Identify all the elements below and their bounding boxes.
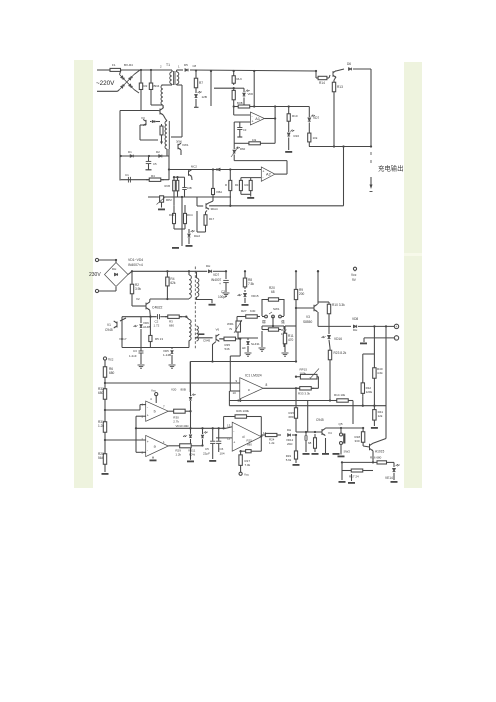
svg-text:C945: C945 xyxy=(203,339,211,343)
svg-text:R16: R16 xyxy=(294,134,300,138)
svg-text:R: R xyxy=(225,183,227,187)
svg-text:C6: C6 xyxy=(220,447,224,451)
svg-text:DH: DH xyxy=(112,267,116,271)
svg-text:9V: 9V xyxy=(352,278,357,282)
svg-text:R14: R14 xyxy=(319,81,325,85)
svg-text:WR1: WR1 xyxy=(227,322,234,326)
svg-text:10: 10 xyxy=(233,391,237,395)
svg-text:R33 3.3k: R33 3.3k xyxy=(298,392,311,396)
svg-text:230V: 230V xyxy=(89,272,101,278)
svg-text:A1015: A1015 xyxy=(375,450,384,454)
svg-text:1.2k: 1.2k xyxy=(98,424,104,428)
svg-text:SW1: SW1 xyxy=(273,307,280,311)
svg-text:62k: 62k xyxy=(170,281,176,285)
svg-text:564: 564 xyxy=(98,456,104,460)
svg-text:680: 680 xyxy=(169,324,174,328)
svg-text:RC4: RC4 xyxy=(187,213,193,217)
svg-text:DH: DH xyxy=(287,428,291,432)
svg-text:VD7: VD7 xyxy=(313,116,319,120)
svg-text:VD7: VD7 xyxy=(213,273,219,277)
svg-text:10k: 10k xyxy=(313,136,318,140)
svg-text:12B: 12B xyxy=(202,95,207,99)
svg-text:R23 8.2k: R23 8.2k xyxy=(334,351,347,355)
svg-text:BD4: BD4 xyxy=(154,84,160,88)
svg-text:R14 10k: R14 10k xyxy=(334,393,346,397)
svg-text:546: 546 xyxy=(225,347,230,351)
svg-text:22μF: 22μF xyxy=(203,452,210,456)
svg-text:1-14B: 1-14B xyxy=(163,353,171,357)
svg-text:KBA: KBA xyxy=(217,190,223,194)
svg-text:1.2nF: 1.2nF xyxy=(129,354,137,358)
svg-text:120k: 120k xyxy=(366,390,373,394)
svg-text:D1: D1 xyxy=(128,150,132,154)
svg-text:VD16: VD16 xyxy=(334,337,342,341)
svg-text:+: + xyxy=(252,119,254,123)
svg-text:V3: V3 xyxy=(141,116,145,120)
svg-text:VD17: VD17 xyxy=(119,337,127,341)
svg-text:R2: R2 xyxy=(144,84,148,88)
svg-text:DH: DH xyxy=(206,264,210,268)
svg-text:680: 680 xyxy=(98,391,104,395)
svg-text:680: 680 xyxy=(289,415,294,419)
svg-text:b: b xyxy=(154,410,156,414)
svg-text:680: 680 xyxy=(247,443,252,447)
svg-text:Vcc: Vcc xyxy=(244,473,250,477)
svg-text:330: 330 xyxy=(355,439,360,443)
svg-text:2: 2 xyxy=(160,65,162,69)
svg-text:68: 68 xyxy=(271,290,275,294)
svg-text:680: 680 xyxy=(109,371,115,375)
svg-text:VD1~VD4: VD1~VD4 xyxy=(128,258,143,262)
svg-text:RC1: RC1 xyxy=(169,213,175,217)
svg-text:Vcc: Vcc xyxy=(108,358,114,362)
svg-text:C5: C5 xyxy=(153,162,157,166)
svg-text:104: 104 xyxy=(220,452,225,456)
svg-text:1.2k: 1.2k xyxy=(269,441,275,445)
svg-text:+: + xyxy=(219,282,221,286)
svg-text:SL431: SL431 xyxy=(251,342,260,346)
svg-text:Vcc: Vcc xyxy=(351,273,357,277)
svg-text:1: 1 xyxy=(178,65,180,69)
svg-text:R5 13: R5 13 xyxy=(155,337,163,341)
svg-text:+: + xyxy=(147,440,149,444)
svg-text:C945: C945 xyxy=(316,418,324,422)
svg-text:R13: R13 xyxy=(337,85,343,89)
svg-text:A1: A1 xyxy=(255,117,260,121)
svg-text:1.72: 1.72 xyxy=(154,324,160,328)
svg-text:200: 200 xyxy=(299,292,305,296)
svg-text:C945: C945 xyxy=(105,328,113,332)
svg-text:60%: 60% xyxy=(189,453,195,457)
svg-text:D2: D2 xyxy=(156,150,160,154)
svg-text:R7: R7 xyxy=(199,81,203,85)
svg-text:7.5k: 7.5k xyxy=(248,282,254,286)
svg-text:12k: 12k xyxy=(378,414,383,418)
svg-text:10k: 10k xyxy=(252,138,257,142)
svg-text:BOB: BOB xyxy=(237,101,243,105)
svg-text:R4: R4 xyxy=(151,174,155,178)
svg-text:DH: DH xyxy=(353,328,357,332)
svg-text:+: + xyxy=(395,325,397,329)
svg-text:C3: C3 xyxy=(243,128,247,132)
svg-text:3.9k: 3.9k xyxy=(135,287,141,291)
svg-text:3DA4: 3DA4 xyxy=(211,207,218,211)
svg-text:VD6: VD6 xyxy=(248,92,254,96)
svg-text:Vcc: Vcc xyxy=(151,389,157,393)
svg-text:20Ω: 20Ω xyxy=(287,442,293,446)
svg-text:+: + xyxy=(233,441,235,445)
svg-text:R10: R10 xyxy=(292,114,298,118)
svg-text:Q5: Q5 xyxy=(339,422,343,426)
svg-text:7: 7 xyxy=(163,405,165,409)
svg-text:V1: V1 xyxy=(107,323,111,327)
svg-text:弱: 弱 xyxy=(262,320,266,324)
svg-text:R17 24: R17 24 xyxy=(349,475,359,479)
svg-text:R10 3.3k: R10 3.3k xyxy=(332,303,345,307)
svg-text:V3: V3 xyxy=(306,315,310,319)
svg-text:100k: 100k xyxy=(300,371,307,375)
svg-text:强: 强 xyxy=(281,319,285,324)
svg-text:C3: C3 xyxy=(133,349,137,353)
svg-text:充电输出: 充电输出 xyxy=(378,164,404,173)
svg-text:VW1: VW1 xyxy=(182,143,189,147)
svg-text:7.0k: 7.0k xyxy=(245,463,251,467)
svg-text:MC2: MC2 xyxy=(191,165,197,169)
svg-text:8: 8 xyxy=(266,383,268,387)
svg-text:SW2: SW2 xyxy=(344,450,351,454)
svg-text:V20: V20 xyxy=(171,388,177,392)
svg-text:4.6k: 4.6k xyxy=(377,371,383,375)
svg-text:S8550: S8550 xyxy=(303,320,312,324)
svg-text:-: - xyxy=(395,337,396,341)
svg-text:R17: R17 xyxy=(209,217,215,221)
svg-text:R27: R27 xyxy=(241,309,247,313)
svg-text:2.7k: 2.7k xyxy=(173,420,179,424)
svg-text:9: 9 xyxy=(236,379,238,383)
svg-text:F1: F1 xyxy=(112,63,116,67)
svg-text:IC1 LM324: IC1 LM324 xyxy=(245,374,262,378)
svg-text:68: 68 xyxy=(308,441,312,445)
svg-text:7k: 7k xyxy=(229,327,233,331)
svg-text:A2: A2 xyxy=(266,172,271,176)
svg-text:R16 680: R16 680 xyxy=(370,456,382,460)
svg-text:1: 1 xyxy=(163,440,165,444)
svg-text:+: + xyxy=(262,169,264,173)
svg-text:c: c xyxy=(248,388,250,392)
svg-text:R26 100k: R26 100k xyxy=(236,409,249,413)
svg-text:12: 12 xyxy=(227,437,231,441)
svg-text:16B: 16B xyxy=(187,186,192,190)
svg-text:V4: V4 xyxy=(328,431,332,435)
svg-text:R21: R21 xyxy=(245,183,251,187)
svg-text:HF: HF xyxy=(242,346,246,350)
svg-text:BX-R4: BX-R4 xyxy=(124,63,133,67)
svg-text:C5: C5 xyxy=(205,447,209,451)
svg-text:IN4007×4: IN4007×4 xyxy=(128,263,143,267)
svg-text:80B: 80B xyxy=(181,388,186,392)
svg-text:V6: V6 xyxy=(216,328,220,332)
svg-text:C8: C8 xyxy=(193,64,197,68)
svg-text:RCB: RCB xyxy=(165,184,171,188)
svg-text:R60: R60 xyxy=(240,147,246,151)
svg-text:DH2: DH2 xyxy=(194,234,200,238)
svg-text:RL9: RL9 xyxy=(237,77,243,81)
svg-text:~220V: ~220V xyxy=(96,80,115,87)
svg-text:d: d xyxy=(242,435,244,439)
svg-text:T1: T1 xyxy=(166,63,170,67)
svg-text:VD8: VD8 xyxy=(352,317,358,321)
svg-text:K30: K30 xyxy=(250,309,256,313)
svg-text:C1: C1 xyxy=(125,173,129,177)
svg-text:D6: D6 xyxy=(347,62,351,66)
svg-text:1.2k: 1.2k xyxy=(175,453,181,457)
svg-text:C4B22: C4B22 xyxy=(152,306,162,310)
svg-text:V2: V2 xyxy=(136,297,140,301)
svg-text:A14B: A14B xyxy=(143,325,150,329)
svg-text:VD10 40Ω: VD10 40Ω xyxy=(176,424,189,428)
svg-text:4: 4 xyxy=(150,397,152,401)
svg-text:VE14: VE14 xyxy=(385,476,393,480)
svg-text:R17: R17 xyxy=(235,183,241,187)
svg-text:+: + xyxy=(147,413,149,417)
svg-text:470: 470 xyxy=(288,338,294,342)
svg-text:D5: D5 xyxy=(184,63,188,67)
svg-text:100μF: 100μF xyxy=(218,295,227,299)
svg-text:VD15: VD15 xyxy=(251,294,259,298)
svg-text:RP2: RP2 xyxy=(166,198,172,202)
svg-text:5.6k: 5.6k xyxy=(286,458,292,462)
